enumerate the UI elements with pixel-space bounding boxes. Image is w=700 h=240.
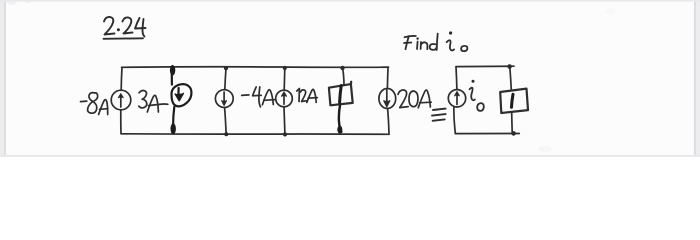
- wire right edge lower segment: [388, 109, 389, 135]
- value label -8A: [81, 93, 108, 115]
- wire left edge lower segment of right circuit: [454, 107, 456, 134]
- wire left edge upper segment of right circuit: [455, 67, 458, 90]
- wire branch 2 lower segment: [173, 107, 174, 126]
- junction at top of branch 4: [283, 66, 287, 70]
- junction at bottom of branch 4: [283, 132, 287, 136]
- junction at top of branch 5: [340, 66, 344, 70]
- value label -4A: [242, 87, 275, 107]
- resistor R2 (box symbol): [500, 89, 528, 113]
- wire branch 5 lower segment: [339, 105, 342, 131]
- current source I5 20A (arrow down): [379, 89, 396, 109]
- wire top bus of right circuit: [456, 65, 514, 67]
- junction at top right of right circuit: [507, 64, 512, 69]
- junction at top of branch 2: [170, 65, 175, 75]
- wire branch 3 upper segment: [225, 68, 226, 90]
- value label 20A: [398, 90, 431, 108]
- wire right edge lower segment of right circuit: [511, 113, 514, 133]
- wire left edge lower segment: [120, 110, 122, 134]
- equivalence symbol between circuits: [432, 109, 446, 121]
- current source I3 -4A (arrow down): [215, 90, 233, 108]
- wire stroke through resistor R2: [512, 94, 514, 107]
- problem number label 2.24 (underlined): [104, 17, 146, 39]
- wire branch 3 lower segment: [225, 107, 227, 133]
- wire bottom bus of right circuit: [455, 133, 519, 135]
- junction at bottom of branch 2: [171, 123, 176, 134]
- value label 3A: [139, 90, 168, 112]
- wire stroke through resistor R1: [340, 86, 342, 103]
- wire right edge upper segment: [386, 67, 389, 88]
- wire left edge upper segment: [120, 68, 123, 91]
- current source i_o (arrow up): [448, 90, 465, 107]
- current source I1 -8A (arrow up): [111, 90, 131, 110]
- wire branch 4 lower segment: [283, 107, 286, 134]
- current source I4 12A (arrow up): [276, 90, 293, 107]
- text "Find i_o": [404, 31, 467, 51]
- wire branch 4 upper segment: [283, 68, 286, 90]
- label i_o: [470, 80, 484, 111]
- resistor R1 (box symbol): [329, 82, 353, 106]
- wire bottom bus of left circuit: [121, 133, 389, 136]
- junction at bottom of branch 5: [337, 126, 342, 134]
- current source I2 3A (arrow down, bold): [171, 84, 191, 106]
- junction at bottom of branch 3: [224, 132, 228, 136]
- value label 12A: [297, 89, 318, 103]
- wire right edge upper segment of right circuit: [510, 67, 512, 90]
- wire top bus of left circuit: [122, 66, 389, 69]
- junction at bottom right of right circuit: [511, 131, 516, 136]
- junction at top of branch 3: [224, 66, 228, 70]
- wire branch 2 upper segment: [171, 66, 174, 85]
- wire branch 5 upper segment: [343, 68, 344, 85]
